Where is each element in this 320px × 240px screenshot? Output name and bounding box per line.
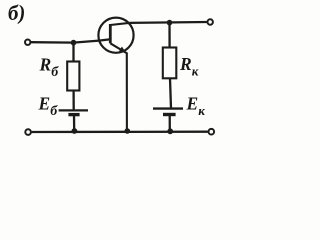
node top junction bbox=[167, 20, 173, 26]
terminal top right bbox=[208, 19, 213, 24]
transistor Q1 base bar bbox=[109, 24, 112, 43]
wire bottom bbox=[32, 131, 208, 134]
node bottom right bbox=[167, 128, 173, 134]
battery Ek long plate bbox=[153, 107, 183, 109]
terminal bottom right bbox=[209, 129, 215, 135]
resistor Rb bbox=[67, 62, 79, 91]
node emitter bottom bbox=[125, 128, 131, 134]
wire base bbox=[31, 39, 110, 42]
terminal bottom left bbox=[25, 129, 31, 135]
wire Rk to Ek bbox=[170, 78, 171, 108]
battery Eb short plate bbox=[68, 113, 79, 116]
wire top bbox=[130, 21, 207, 24]
battery Eb long plate bbox=[59, 109, 88, 111]
transistor Q1 emitter lead bbox=[110, 43, 127, 131]
node bottom left bbox=[72, 128, 78, 134]
wire Rb to Eb bbox=[72, 91, 74, 111]
terminal input left bbox=[25, 40, 30, 45]
transistor Q1 emitter arrow bbox=[119, 47, 126, 53]
wire Ek to bottom bbox=[169, 115, 171, 132]
battery Ek short plate bbox=[163, 113, 176, 116]
transistor Q1 collector lead bbox=[110, 23, 129, 25]
wire junction to Rb bbox=[72, 43, 74, 62]
wire junction to Rk bbox=[168, 23, 170, 48]
node base junction bbox=[71, 40, 77, 46]
svg-text:б): б) bbox=[7, 0, 26, 25]
transistor Q1 circle bbox=[98, 18, 133, 53]
wire Eb to bottom bbox=[73, 115, 75, 132]
resistor Rk bbox=[163, 48, 177, 79]
